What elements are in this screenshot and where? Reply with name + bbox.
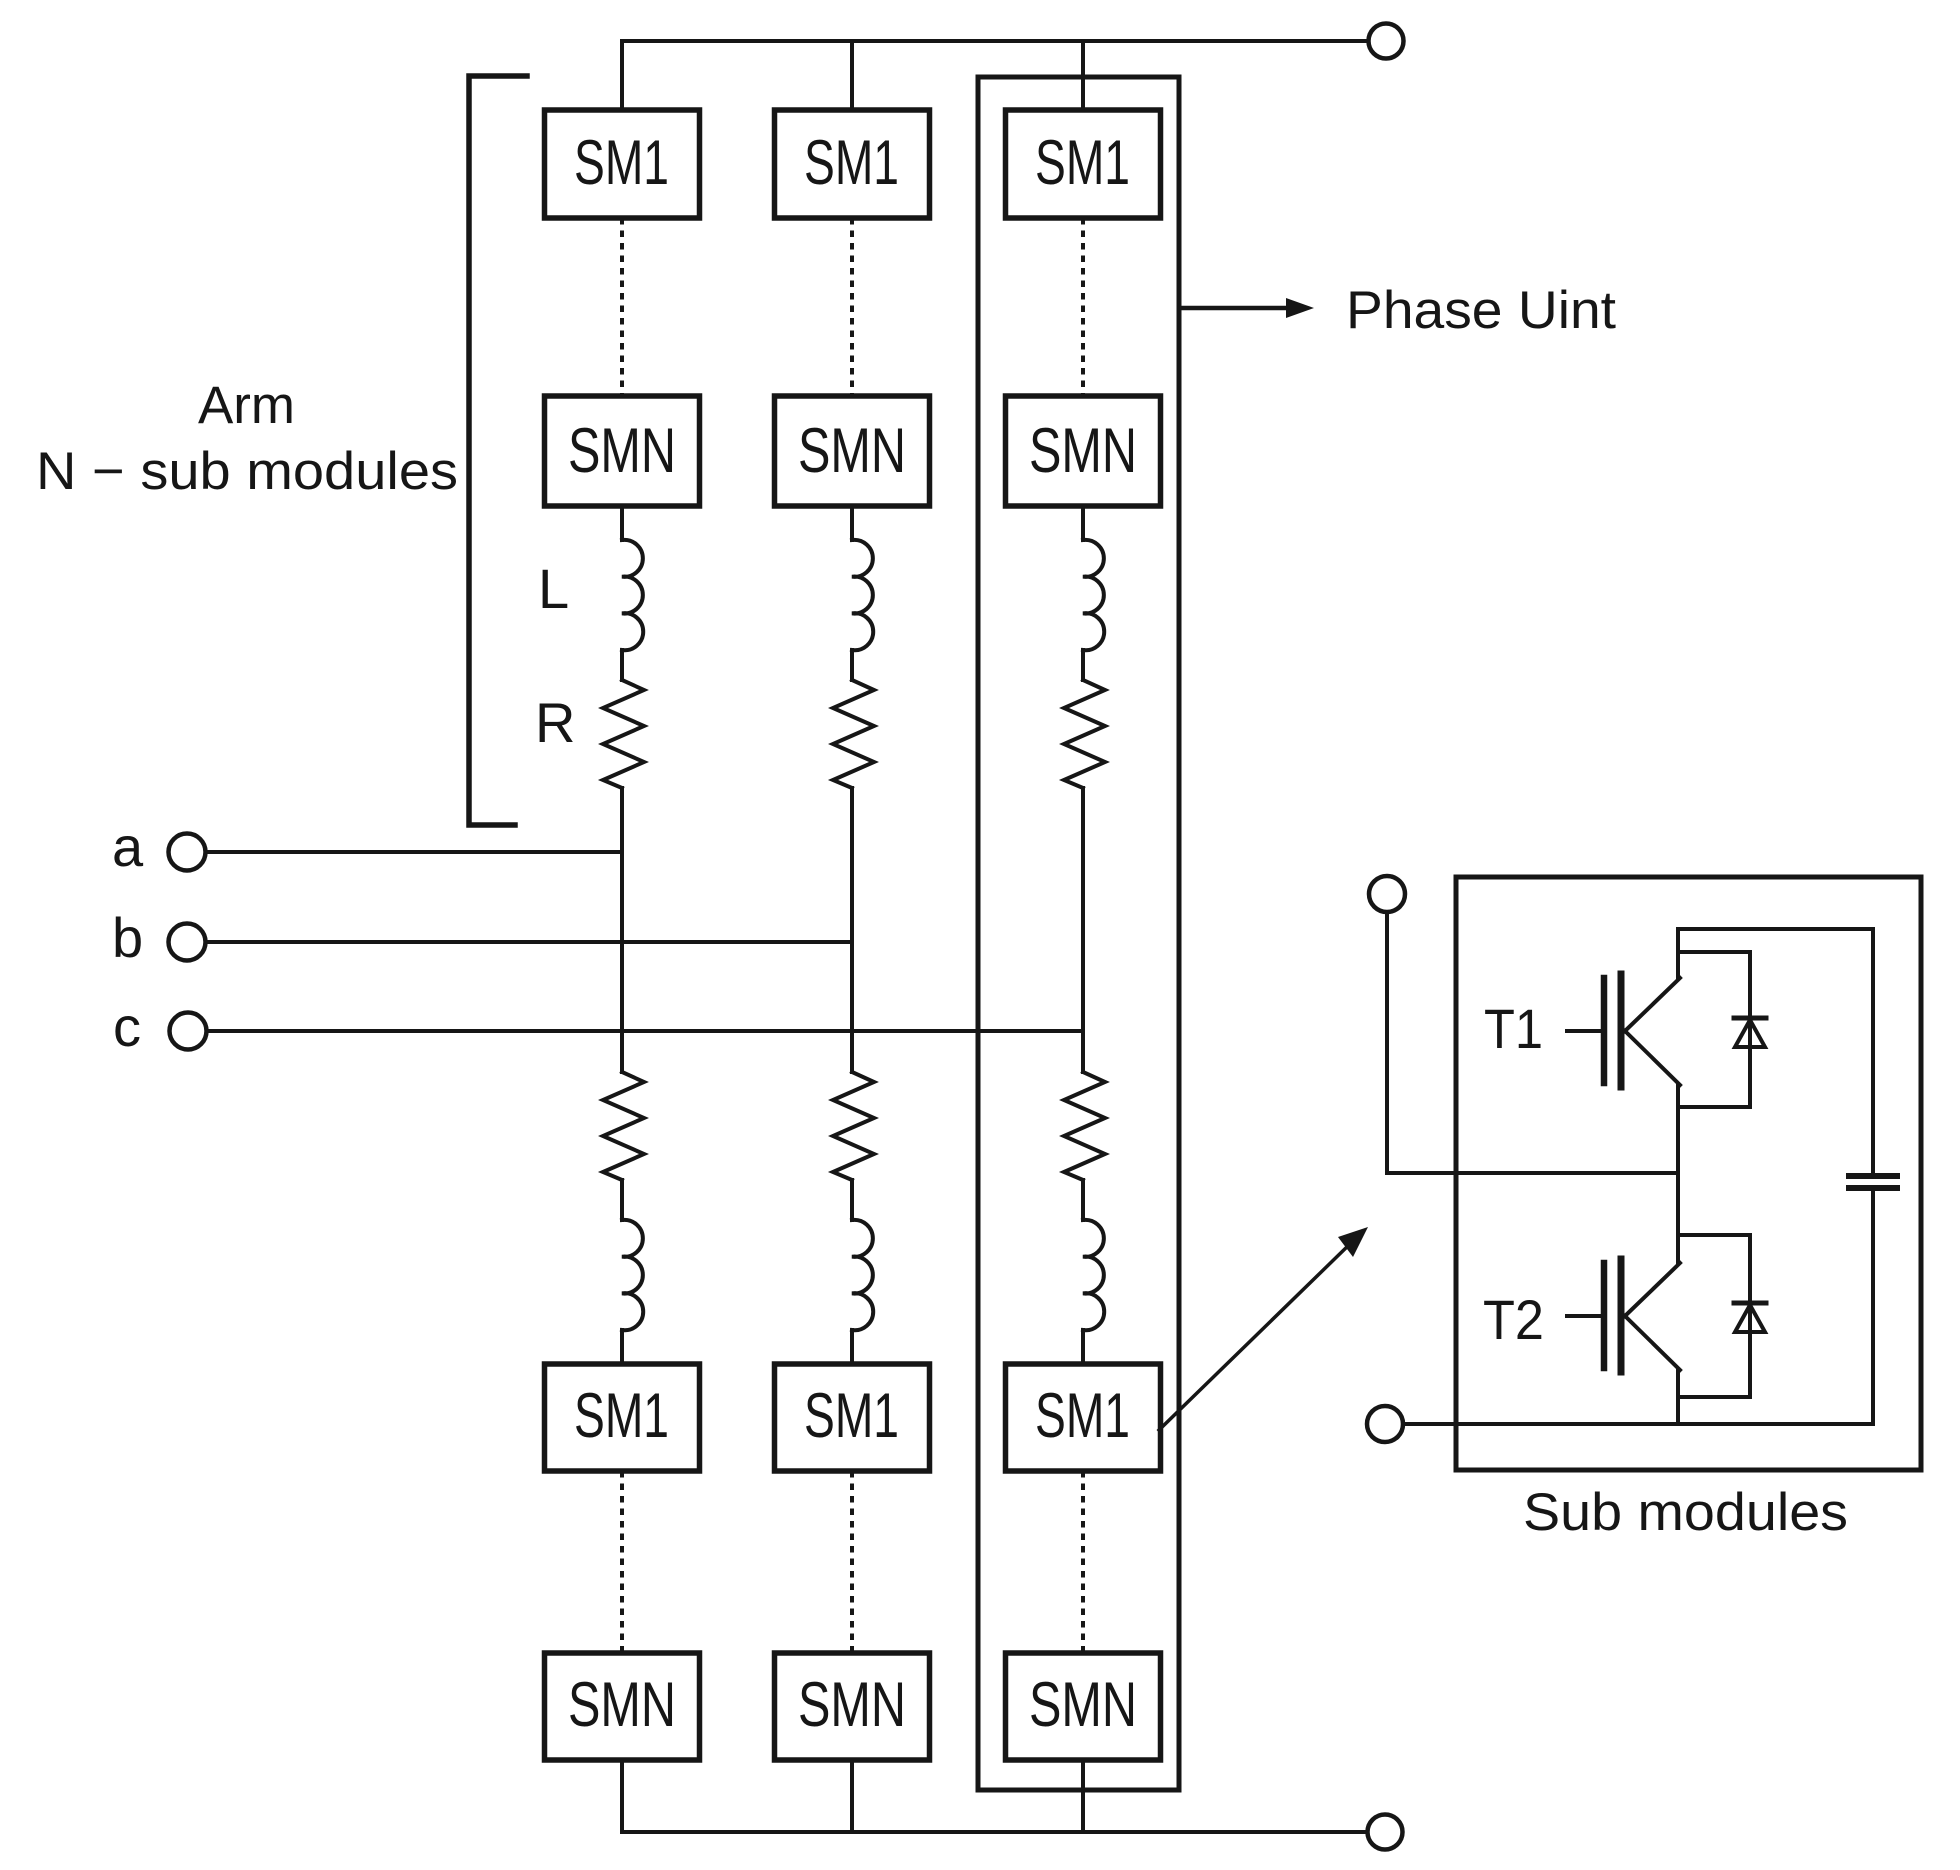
svg-text:R: R xyxy=(535,691,575,754)
svg-text:SMN: SMN xyxy=(568,416,676,486)
svg-text:SMN: SMN xyxy=(798,1670,906,1740)
svg-text:SM1: SM1 xyxy=(804,128,899,198)
svg-text:N − sub modules: N − sub modules xyxy=(36,442,458,501)
svg-text:L: L xyxy=(538,557,569,620)
svg-text:T1: T1 xyxy=(1484,997,1543,1060)
svg-text:SMN: SMN xyxy=(568,1670,676,1740)
svg-text:SM1: SM1 xyxy=(1035,128,1130,198)
svg-text:SMN: SMN xyxy=(798,416,906,486)
svg-text:SM1: SM1 xyxy=(1035,1381,1130,1451)
svg-text:T2: T2 xyxy=(1483,1288,1544,1351)
svg-text:Phase Uint: Phase Uint xyxy=(1346,281,1616,340)
svg-text:SM1: SM1 xyxy=(574,128,669,198)
svg-text:SMN: SMN xyxy=(1029,1670,1137,1740)
svg-text:a: a xyxy=(112,815,144,878)
svg-text:Sub modules: Sub modules xyxy=(1523,1483,1848,1542)
svg-text:c: c xyxy=(113,995,141,1058)
svg-text:Arm: Arm xyxy=(198,376,295,435)
svg-text:SMN: SMN xyxy=(1029,416,1137,486)
svg-text:SM1: SM1 xyxy=(804,1381,899,1451)
svg-text:b: b xyxy=(112,906,143,969)
svg-text:SM1: SM1 xyxy=(574,1381,669,1451)
